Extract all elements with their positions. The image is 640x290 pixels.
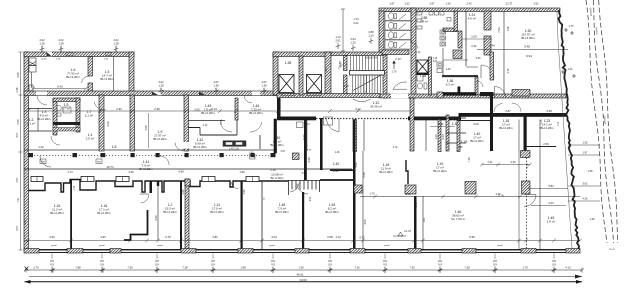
vert dim x307 <box>306 120 308 150</box>
ext below x385 <box>384 254 386 260</box>
wall wall x354 upper <box>353 120 357 152</box>
room label room 1.19b <box>433 162 447 173</box>
wall bottom pier x350 <box>350 249 365 254</box>
room label room 1.31 <box>468 13 477 21</box>
svg-text:1.73: 1.73 <box>569 25 574 28</box>
room label room 1.5 <box>100 70 114 81</box>
svg-text:±0.00: ±0.00 <box>300 278 307 282</box>
svg-text:1.20: 1.20 <box>343 84 349 88</box>
wall y120 rooms 1.43 <box>188 120 225 122</box>
boundary line 1 <box>586 0 607 243</box>
dimension mark top mark2 x264 <box>261 80 267 94</box>
partition x363 <box>362 151 364 249</box>
dimension mark bottom mark x157 <box>155 259 160 273</box>
svg-text:panel: panel <box>269 245 275 247</box>
svg-text:8.8: 8.8 <box>328 259 332 263</box>
survey cross 574,76 <box>572 74 576 78</box>
jagged east wall <box>559 10 579 249</box>
svg-text:5.41: 5.41 <box>438 122 444 126</box>
wall wall x236 divider <box>235 98 238 120</box>
wall x491 lower dark <box>490 96 493 151</box>
wall hatch block x512-530 <box>512 90 530 97</box>
partition x262 <box>261 181 263 249</box>
wall hatch block x437 <box>437 92 443 98</box>
kitchen block <box>223 141 246 147</box>
wall wc block south wall <box>382 50 409 55</box>
svg-text:4.13: 4.13 <box>565 265 571 269</box>
wall spine wall west <box>24 91 277 96</box>
svg-text:1.28: 1.28 <box>420 74 427 78</box>
svg-text:1.38: 1.38 <box>213 83 219 87</box>
tick <box>341 50 345 52</box>
ext below x273 <box>272 254 274 260</box>
svg-text:2.42: 2.42 <box>466 2 472 6</box>
svg-text:hm 7.00 m: hm 7.00 m <box>451 217 466 221</box>
svg-text:2.41: 2.41 <box>471 44 477 48</box>
dim <box>462 38 492 40</box>
wall y170 x330-353 <box>330 169 353 171</box>
svg-text:4.50: 4.50 <box>154 215 158 221</box>
partition x181 <box>180 181 182 249</box>
left tick <box>19 51 23 53</box>
room label room 1.38b <box>452 122 459 126</box>
wall x525 <box>524 114 527 151</box>
ext line x61 <box>60 46 62 52</box>
wall elevator block east <box>325 52 331 95</box>
partition x540 <box>539 151 541 249</box>
svg-text:BH 3.30m: BH 3.30m <box>521 36 535 40</box>
door arc door arc 1.8 <box>94 102 106 110</box>
svg-text:1.70: 1.70 <box>391 70 397 74</box>
room label room wc 2.88 <box>420 16 429 24</box>
partition room 1.5 <box>113 57 115 92</box>
svg-text:BH 3.30m: BH 3.30m <box>66 75 80 79</box>
bottom outer wall <box>24 249 580 250</box>
room label room 1.40 <box>470 132 484 143</box>
svg-text:2.47: 2.47 <box>333 169 339 173</box>
svg-text:1.38: 1.38 <box>158 83 164 87</box>
svg-text:BH 2.26m: BH 2.26m <box>50 211 64 215</box>
dim row 3 <box>25 281 583 283</box>
survey cross 566,30 <box>564 28 568 32</box>
wall stair west wall upper <box>344 56 348 71</box>
partition x260 <box>259 135 261 149</box>
wall partition x187 hatched <box>185 179 189 249</box>
small arc x477 <box>477 81 483 87</box>
svg-text:4 + L: 4 + L <box>609 247 615 251</box>
dimension mark top mark2 x161 <box>158 80 164 94</box>
wall stair west wall lower <box>344 75 348 95</box>
door gap spine wall 3 <box>252 91 260 95</box>
dim <box>430 126 455 128</box>
room label room 1.11 <box>163 203 177 214</box>
room label room 1.11b <box>210 203 224 214</box>
svg-text:2.01: 2.01 <box>353 21 359 25</box>
ext below x495 <box>494 254 496 260</box>
svg-text:panel: panel <box>51 245 57 247</box>
ticks y164 <box>480 163 532 167</box>
wall corridor north wall east <box>380 94 566 98</box>
svg-text:2.02: 2.02 <box>113 38 119 42</box>
svg-text:1.29: 1.29 <box>446 68 451 71</box>
wall wc/corridor wall x413 <box>411 8 416 98</box>
wall wall x185 <box>184 95 189 151</box>
small box x447 <box>447 18 451 22</box>
svg-text:5.98: 5.98 <box>362 172 366 178</box>
svg-text:5.48: 5.48 <box>524 45 530 49</box>
shaft shaft right <box>417 60 428 73</box>
wall wall x100 <box>99 95 104 151</box>
door arc divider 1.6 <box>82 76 89 83</box>
line y67 <box>466 66 478 68</box>
corridor south wall east part3 <box>460 113 566 117</box>
dimension mark top mark x42 <box>39 38 45 52</box>
wall y146 <box>526 146 556 148</box>
partition x415 <box>414 196 417 249</box>
wall hatch block x520 y150 <box>521 151 531 158</box>
wall bottom pier x24 <box>24 249 39 254</box>
svg-text:1.01: 1.01 <box>422 217 426 223</box>
svg-text:10.71: 10.71 <box>106 165 114 169</box>
svg-text:4.67: 4.67 <box>433 61 438 63</box>
svg-text:7.97: 7.97 <box>16 197 20 203</box>
door arc door arc wc core <box>51 136 60 145</box>
wall wc core west <box>53 100 57 135</box>
door gap corridor north x391 <box>391 94 408 99</box>
svg-text:9.9: 9.9 <box>271 262 275 266</box>
partition x466 full <box>465 11 467 66</box>
dim vline x148 <box>148 113 150 148</box>
wall hatch block x356 <box>354 185 362 193</box>
svg-text:4.50: 4.50 <box>363 219 367 225</box>
wall wc core east <box>76 98 80 132</box>
left tick <box>19 94 23 96</box>
svg-text:4.70: 4.70 <box>393 146 398 149</box>
wall shaft hatch x453 <box>453 50 462 59</box>
wall corridor north wall centre <box>277 94 380 98</box>
corridor glass front dotted <box>28 155 273 157</box>
svg-text:1.8: 1.8 <box>112 145 117 149</box>
window mid line bottom wall <box>24 250 580 252</box>
svg-text:45.01: 45.01 <box>297 273 304 277</box>
dim ticks 6.42 <box>31 87 88 91</box>
svg-text:7.26: 7.26 <box>354 265 360 269</box>
vert line room 1.30 <box>503 11 505 94</box>
svg-text:7.30: 7.30 <box>409 265 415 269</box>
partition x423 <box>422 196 424 249</box>
room label room 1.6 <box>66 68 80 79</box>
shelf boxes x323 <box>324 117 333 125</box>
svg-text:panel: panel <box>384 245 390 247</box>
wall hatch block x292 <box>293 153 300 160</box>
partition y135 <box>200 134 237 136</box>
door arc door arc spine 1 <box>37 95 47 105</box>
svg-text:8.8: 8.8 <box>211 259 215 263</box>
svg-text:2.10: 2.10 <box>270 168 276 172</box>
svg-text:2.87: 2.87 <box>505 109 511 113</box>
door arc door arc wc south <box>410 42 418 49</box>
room label room 1.30 <box>521 29 535 40</box>
ext line x116 <box>115 46 117 52</box>
wall hatch block x410 <box>405 185 416 194</box>
dimension mark bottom mark x330 <box>328 259 333 273</box>
svg-text:7.01: 7.01 <box>325 67 328 72</box>
room label room 1.8 <box>112 145 117 149</box>
ext below x157 <box>156 254 158 260</box>
dimension mark bottom mark x385 <box>383 259 388 273</box>
partition x540 <box>539 120 541 152</box>
svg-text:3.52: 3.52 <box>533 2 539 6</box>
svg-text:2.01: 2.01 <box>335 38 341 42</box>
wall wall x131 <box>130 95 135 151</box>
wall wall x429 <box>429 57 432 95</box>
fixtures room 1.29 <box>437 62 443 73</box>
svg-text:BH 2.26m: BH 2.26m <box>97 211 111 215</box>
wall elevator block top <box>273 52 331 57</box>
svg-text:5.55: 5.55 <box>16 119 20 125</box>
svg-text:3.48: 3.48 <box>546 109 552 113</box>
jagged wall inner line <box>557 12 572 248</box>
wall wall x458 <box>457 120 460 152</box>
ticks y196 <box>373 195 522 199</box>
svg-text:panel: panel <box>157 245 163 247</box>
door arc partition x241 <box>232 182 239 189</box>
dimension mark top mark x116 <box>113 38 119 52</box>
svg-text:2.39: 2.39 <box>154 107 160 111</box>
corridor door arc 2 <box>160 156 169 165</box>
wc core dark band 2 <box>53 128 80 132</box>
svg-text:5.82: 5.82 <box>583 183 588 186</box>
svg-text:BH 2.26m: BH 2.26m <box>163 210 177 214</box>
door leaf x140 <box>140 193 149 195</box>
wall elevator middle wall <box>299 56 303 95</box>
svg-text:panel: panel <box>99 245 105 247</box>
svg-text:6.42: 6.42 <box>57 85 63 89</box>
svg-text:34.36 m²: 34.36 m² <box>370 105 382 109</box>
svg-text:1.40: 1.40 <box>568 68 573 71</box>
svg-text:1.13: 1.13 <box>353 17 359 21</box>
svg-text:4.04: 4.04 <box>271 235 277 239</box>
wall y133 <box>446 132 466 134</box>
office front wall stepped <box>28 180 288 193</box>
svg-text:1.38: 1.38 <box>58 41 64 45</box>
sink row <box>440 30 446 46</box>
svg-text:3.24: 3.24 <box>107 121 110 126</box>
window box mullions <box>37 177 253 182</box>
room label room 1.43 <box>201 104 215 115</box>
svg-text:2.02: 2.02 <box>261 80 267 84</box>
svg-text:2.02: 2.02 <box>58 38 64 42</box>
svg-text:4.50: 4.50 <box>243 189 246 194</box>
svg-text:7.06: 7.06 <box>497 27 501 33</box>
svg-text:3.95: 3.95 <box>16 72 20 78</box>
door gap spine wall 1 <box>36 91 47 95</box>
tie line y201 <box>568 200 600 202</box>
partition x303 <box>302 192 304 249</box>
wall wc divider wall y28 <box>443 28 457 32</box>
wall x458 y86 <box>458 87 461 96</box>
svg-text:8.8: 8.8 <box>383 259 387 263</box>
room label room 1.15 <box>50 204 64 215</box>
svg-text:4.93: 4.93 <box>100 235 106 239</box>
tick <box>341 8 345 10</box>
interior dim line y240 <box>24 240 580 242</box>
svg-text:3.98: 3.98 <box>301 171 307 175</box>
door leaf <box>480 65 482 78</box>
wall wall x455 <box>454 11 458 31</box>
svg-text:1.38: 1.38 <box>39 41 45 45</box>
svg-text:2.79: 2.79 <box>507 68 510 73</box>
svg-text:1.10: 1.10 <box>416 51 421 54</box>
room label room 1.19 <box>461 140 468 144</box>
svg-text:1.26: 1.26 <box>445 2 451 6</box>
wall wc block west wall <box>379 11 384 52</box>
svg-text:+7.44°: +7.44° <box>395 59 402 61</box>
tick <box>304 123 310 125</box>
svg-text:1.13: 1.13 <box>335 35 341 39</box>
svg-text:1.40: 1.40 <box>333 162 340 166</box>
svg-text:9.9: 9.9 <box>438 262 442 266</box>
door arc door arc spine 3 <box>244 95 252 103</box>
dim row 1 <box>26 269 582 271</box>
dimension mark bottom mark x273 <box>271 259 276 273</box>
door triangle spine x202 <box>199 92 205 96</box>
vestibule door arcs <box>290 183 308 194</box>
shaft bottom dark <box>416 73 429 75</box>
room label room 1.4 <box>86 133 95 141</box>
dimension mark bottom mark x52 <box>50 259 55 273</box>
svg-text:9.9: 9.9 <box>383 262 387 266</box>
wall north outer wall <box>379 8 560 12</box>
room label corr2 <box>271 173 284 181</box>
wall wall x439 <box>438 120 441 152</box>
svg-text:3.1 m²: 3.1 m² <box>27 122 36 126</box>
wall y118 <box>446 117 466 119</box>
svg-text:BH 2.26m: BH 2.26m <box>325 210 339 214</box>
cross mark start <box>25 267 29 271</box>
room label room 1.2 <box>27 118 36 126</box>
svg-text:1.87: 1.87 <box>389 2 395 6</box>
door arc door right corridor <box>481 65 494 78</box>
svg-text:2.38: 2.38 <box>16 87 19 92</box>
svg-text:3.07: 3.07 <box>16 132 19 137</box>
corridor south line west <box>24 168 352 170</box>
wall top-left outer <box>24 52 134 57</box>
svg-text:2.00: 2.00 <box>473 122 479 126</box>
partition x519 <box>518 151 520 249</box>
vert dim wc <box>342 9 344 51</box>
svg-text:4.90: 4.90 <box>49 235 55 239</box>
svg-text:8.8: 8.8 <box>438 259 442 263</box>
svg-text:0.94: 0.94 <box>350 37 356 41</box>
room label room 1.18 <box>499 119 513 130</box>
svg-text:BH 3.30m: BH 3.30m <box>100 77 114 81</box>
dim line y164 <box>482 164 530 166</box>
partition y131 <box>28 130 52 132</box>
dimension mark top mark x335 <box>335 35 341 49</box>
wall wall x411 lower <box>410 98 414 151</box>
staircase lower treads <box>353 75 381 93</box>
svg-text:BH 2.26m: BH 2.26m <box>139 167 153 171</box>
svg-text:BH 2.26m: BH 2.26m <box>249 111 263 115</box>
svg-text:BH 2.26m: BH 2.26m <box>433 169 447 173</box>
svg-text:6.95: 6.95 <box>469 235 475 239</box>
box x297 <box>297 122 304 128</box>
svg-text:2.08: 2.08 <box>327 235 333 239</box>
svg-text:BH 2.26m: BH 2.26m <box>499 126 513 130</box>
wall wall x476 <box>475 77 478 95</box>
svg-text:1.99: 1.99 <box>239 170 245 174</box>
wall room divider 1.6|1.5 upper <box>88 57 93 77</box>
svg-text:5.98: 5.98 <box>307 157 311 163</box>
svg-text:BH 2.26m: BH 2.26m <box>270 143 284 147</box>
ext line2 x216 <box>215 88 217 91</box>
partition x426 <box>425 120 427 152</box>
door arc 1.18 <box>494 104 503 113</box>
wall y93 east dark <box>480 92 494 96</box>
window boxes on office front <box>31 177 259 182</box>
wall top-left block east <box>129 52 134 92</box>
wc sink wall marks <box>417 12 422 29</box>
dimension mark top mark x371 <box>368 30 374 44</box>
room label room 1.3 <box>37 110 51 121</box>
interior dim chain <box>24 110 410 112</box>
room label room 1.18b <box>379 163 393 174</box>
svg-text:BH 2.26m: BH 2.26m <box>540 126 554 130</box>
corridor north boundary west : rooms south wall <box>24 149 277 151</box>
svg-text:7.38: 7.38 <box>507 26 510 31</box>
corridor door arc <box>40 156 51 167</box>
svg-text:9.9: 9.9 <box>100 262 104 266</box>
svg-text:2.59: 2.59 <box>543 142 549 146</box>
wall bottom pier x181 <box>181 249 196 254</box>
svg-text:1.62: 1.62 <box>404 2 410 6</box>
wall stair block top <box>331 52 386 56</box>
dimension mark top mark x353 <box>350 37 356 51</box>
svg-text:3.33: 3.33 <box>476 57 481 60</box>
svg-text:2.02: 2.02 <box>39 38 45 42</box>
wall y76 <box>442 75 478 77</box>
room label room 1.7 <box>85 110 94 118</box>
svg-text:1.74: 1.74 <box>73 185 76 190</box>
svg-text:2.39: 2.39 <box>128 170 134 174</box>
left dim line <box>20 52 22 250</box>
svg-text:9.9: 9.9 <box>211 262 215 266</box>
partition x526 dotted <box>526 151 528 249</box>
ext below x52 <box>51 254 53 260</box>
room label room 1.40a <box>270 136 284 147</box>
room label room 1.40c <box>333 162 340 173</box>
post top x158 <box>157 181 159 186</box>
room label room 1.32 <box>0 0 1 1</box>
svg-text:1.36: 1.36 <box>298 265 304 269</box>
svg-text:1.13: 1.13 <box>203 124 208 127</box>
boundary line 2 <box>594 0 614 243</box>
door arc door arc corridor 1 <box>220 122 232 132</box>
staircase upper treads <box>351 56 381 71</box>
dim row1 ticks <box>24 268 584 273</box>
room label room 1.28 <box>420 74 427 78</box>
room 1.44 east/south dark walls <box>277 98 281 120</box>
wall bottom pier x462 <box>462 249 476 254</box>
svg-text:4.22: 4.22 <box>355 107 361 111</box>
wall shaft x187 <box>185 179 190 186</box>
svg-text:1.50: 1.50 <box>583 142 588 145</box>
wall wall y93 west <box>442 93 476 96</box>
svg-text:1.20: 1.20 <box>350 40 356 44</box>
closet column along left wall <box>29 58 36 91</box>
svg-text:BH 2.26m: BH 2.26m <box>470 139 484 143</box>
